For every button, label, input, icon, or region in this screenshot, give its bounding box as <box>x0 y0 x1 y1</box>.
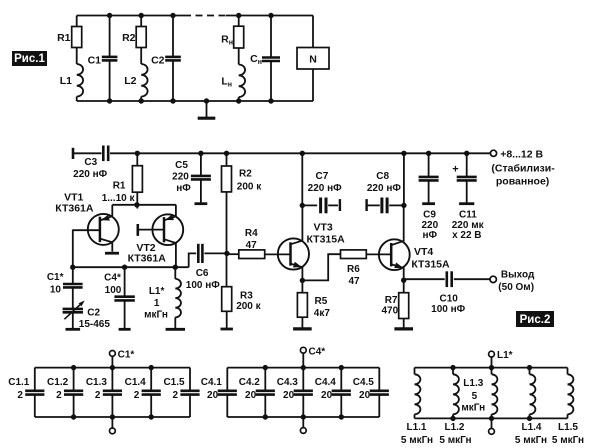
svg-text:470: 470 <box>382 305 399 316</box>
svg-text:2: 2 <box>134 390 140 401</box>
svg-text:C4.2: C4.2 <box>239 377 261 388</box>
svg-text:L1.4: L1.4 <box>521 422 541 433</box>
svg-text:C2: C2 <box>151 55 165 67</box>
svg-text:100 нФ: 100 нФ <box>186 280 221 291</box>
svg-text:+8...12 В: +8...12 В <box>500 149 543 161</box>
svg-text:КТ361А: КТ361А <box>55 203 94 215</box>
svg-text:L2: L2 <box>124 75 136 87</box>
svg-text:4к7: 4к7 <box>314 308 331 319</box>
svg-text:L1.5: L1.5 <box>558 422 578 433</box>
svg-text:L1: L1 <box>60 75 72 87</box>
svg-text:C2: C2 <box>87 308 100 319</box>
svg-text:+: + <box>452 163 458 175</box>
svg-text:(50 Ом): (50 Ом) <box>498 282 534 293</box>
svg-text:рованное): рованное) <box>496 175 549 187</box>
svg-text:47: 47 <box>246 240 258 251</box>
svg-text:C4.4: C4.4 <box>315 377 337 388</box>
svg-text:5 мкГн: 5 мкГн <box>401 435 433 446</box>
svg-text:20: 20 <box>283 390 295 401</box>
svg-text:C1.4: C1.4 <box>125 377 147 388</box>
svg-text:C1*: C1* <box>118 350 135 361</box>
svg-text:C7: C7 <box>316 171 329 182</box>
svg-text:5: 5 <box>472 391 478 402</box>
svg-text:КТ315А: КТ315А <box>411 259 450 271</box>
svg-text:100 нФ: 100 нФ <box>431 304 466 315</box>
svg-text:нФ: нФ <box>176 183 191 194</box>
svg-text:220 нФ: 220 нФ <box>367 183 402 194</box>
svg-text:Cн: Cн <box>250 53 262 66</box>
svg-text:220 нФ: 220 нФ <box>73 169 108 180</box>
svg-text:1: 1 <box>154 298 160 309</box>
svg-text:R4: R4 <box>245 228 258 239</box>
svg-text:15-465: 15-465 <box>79 319 111 330</box>
svg-text:C1: C1 <box>88 55 102 67</box>
svg-text:2: 2 <box>17 390 23 401</box>
svg-text:R5: R5 <box>315 296 328 307</box>
svg-text:VT3: VT3 <box>314 222 333 234</box>
svg-text:2: 2 <box>95 390 101 401</box>
svg-text:Рис.2: Рис.2 <box>520 314 551 326</box>
svg-text:мкГн: мкГн <box>144 309 168 320</box>
svg-text:5 мкГн: 5 мкГн <box>439 435 471 446</box>
svg-text:10: 10 <box>50 285 62 296</box>
svg-text:200 к: 200 к <box>237 182 262 193</box>
svg-text:C3: C3 <box>84 157 97 168</box>
svg-text:R6: R6 <box>347 264 360 275</box>
svg-text:R2: R2 <box>122 32 136 44</box>
svg-text:100: 100 <box>105 285 122 296</box>
svg-text:Lн: Lн <box>221 76 232 89</box>
svg-text:20: 20 <box>359 390 371 401</box>
svg-text:220: 220 <box>172 171 189 182</box>
svg-text:L1.3: L1.3 <box>463 378 483 389</box>
svg-text:C4.5: C4.5 <box>353 377 375 388</box>
svg-text:C6: C6 <box>196 268 209 279</box>
svg-text:мкГн: мкГн <box>461 402 485 413</box>
svg-text:R1: R1 <box>113 181 126 192</box>
svg-text:C1.3: C1.3 <box>86 377 108 388</box>
svg-text:КТ361А: КТ361А <box>128 253 167 265</box>
svg-text:C9: C9 <box>423 210 436 221</box>
svg-text:Рис.1: Рис.1 <box>14 53 45 65</box>
svg-text:N: N <box>309 53 317 65</box>
svg-text:220 нФ: 220 нФ <box>308 183 343 194</box>
svg-text:C4.1: C4.1 <box>201 377 223 388</box>
svg-text:47: 47 <box>348 276 360 287</box>
svg-text:C1.1: C1.1 <box>8 377 30 388</box>
svg-text:5 мкГн: 5 мкГн <box>515 435 547 446</box>
svg-text:Rн: Rн <box>221 34 233 47</box>
svg-text:20: 20 <box>245 390 257 401</box>
svg-text:C8: C8 <box>376 171 389 182</box>
svg-text:C1.5: C1.5 <box>163 377 185 388</box>
svg-text:Выход: Выход <box>501 269 535 280</box>
svg-text:(Стабилизи-: (Стабилизи- <box>491 162 555 174</box>
svg-text:L1*: L1* <box>497 350 513 361</box>
svg-text:C1*: C1* <box>47 272 64 283</box>
svg-text:2: 2 <box>173 390 179 401</box>
svg-text:1...10 к: 1...10 к <box>102 193 136 204</box>
svg-text:КТ315А: КТ315А <box>307 234 346 246</box>
svg-text:R2: R2 <box>239 168 252 179</box>
svg-text:L1.2: L1.2 <box>444 422 464 433</box>
svg-text:х 22 В: х 22 В <box>452 230 481 241</box>
svg-text:200 к: 200 к <box>236 301 261 312</box>
svg-text:C1.2: C1.2 <box>47 377 69 388</box>
svg-text:C11: C11 <box>459 210 477 221</box>
svg-text:L1.1: L1.1 <box>406 422 426 433</box>
svg-text:L1*: L1* <box>149 286 165 297</box>
svg-text:20: 20 <box>321 390 333 401</box>
svg-text:C4*: C4* <box>104 273 121 284</box>
svg-text:C5: C5 <box>175 160 188 171</box>
svg-text:R1: R1 <box>57 32 71 44</box>
svg-text:нФ: нФ <box>423 230 438 241</box>
svg-text:5 мкГн: 5 мкГн <box>552 435 584 446</box>
svg-text:C4.3: C4.3 <box>277 377 299 388</box>
svg-text:20: 20 <box>207 390 219 401</box>
svg-text:C4*: C4* <box>309 346 326 357</box>
svg-text:VT4: VT4 <box>414 246 433 258</box>
svg-text:2: 2 <box>56 390 62 401</box>
